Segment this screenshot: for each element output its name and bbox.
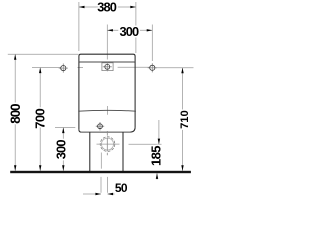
svg-text:380: 380 <box>97 0 117 15</box>
svg-text:185: 185 <box>149 146 164 166</box>
svg-text:300: 300 <box>54 140 69 160</box>
svg-text:800: 800 <box>8 104 23 124</box>
svg-text:700: 700 <box>33 108 48 128</box>
svg-text:50: 50 <box>115 181 128 195</box>
svg-text:710: 710 <box>179 110 191 129</box>
svg-text:300: 300 <box>119 24 139 39</box>
